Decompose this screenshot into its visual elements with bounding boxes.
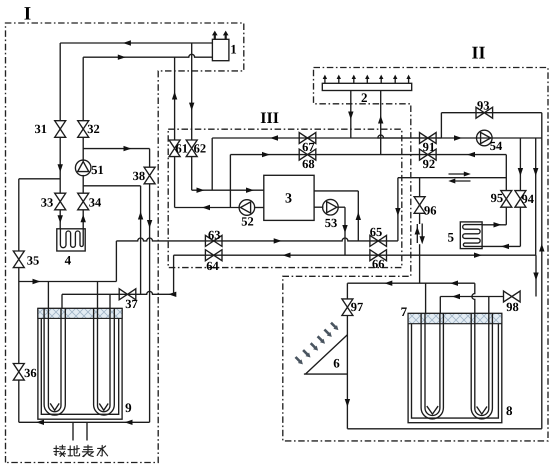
svg-text:9: 9 xyxy=(125,400,132,415)
svg-text:67: 67 xyxy=(302,140,315,154)
svg-text:31: 31 xyxy=(35,122,48,136)
svg-text:6: 6 xyxy=(333,356,340,371)
svg-text:36: 36 xyxy=(24,366,37,380)
svg-text:66: 66 xyxy=(372,257,385,271)
svg-text:62: 62 xyxy=(194,142,207,156)
svg-text:3: 3 xyxy=(285,192,292,207)
svg-text:I: I xyxy=(24,4,31,25)
svg-text:52: 52 xyxy=(241,214,254,228)
svg-text:64: 64 xyxy=(206,259,219,273)
svg-text:94: 94 xyxy=(522,192,535,206)
svg-text:7: 7 xyxy=(401,304,408,319)
svg-text:5: 5 xyxy=(448,230,455,245)
svg-text:97: 97 xyxy=(351,300,364,314)
svg-text:96: 96 xyxy=(424,204,437,218)
svg-text:91: 91 xyxy=(423,140,436,154)
svg-text:III: III xyxy=(260,110,279,127)
svg-text:65: 65 xyxy=(370,225,383,239)
svg-text:34: 34 xyxy=(89,195,102,209)
svg-text:37: 37 xyxy=(125,297,138,311)
svg-text:38: 38 xyxy=(133,169,146,183)
svg-text:95: 95 xyxy=(491,191,504,205)
svg-text:63: 63 xyxy=(208,228,221,242)
svg-text:93: 93 xyxy=(477,99,490,113)
svg-text:54: 54 xyxy=(490,139,503,153)
svg-text:61: 61 xyxy=(175,142,188,156)
svg-text:35: 35 xyxy=(27,254,40,268)
svg-text:1: 1 xyxy=(230,42,237,57)
svg-text:68: 68 xyxy=(302,157,315,171)
svg-text:51: 51 xyxy=(91,163,104,177)
svg-text:98: 98 xyxy=(506,300,519,314)
svg-text:33: 33 xyxy=(41,195,54,209)
svg-text:4: 4 xyxy=(65,253,72,268)
svg-text:2: 2 xyxy=(361,90,368,105)
svg-text:92: 92 xyxy=(423,157,436,171)
svg-text:32: 32 xyxy=(87,122,100,136)
svg-text:8: 8 xyxy=(506,403,513,418)
svg-text:II: II xyxy=(471,43,485,63)
svg-text:53: 53 xyxy=(325,216,338,230)
